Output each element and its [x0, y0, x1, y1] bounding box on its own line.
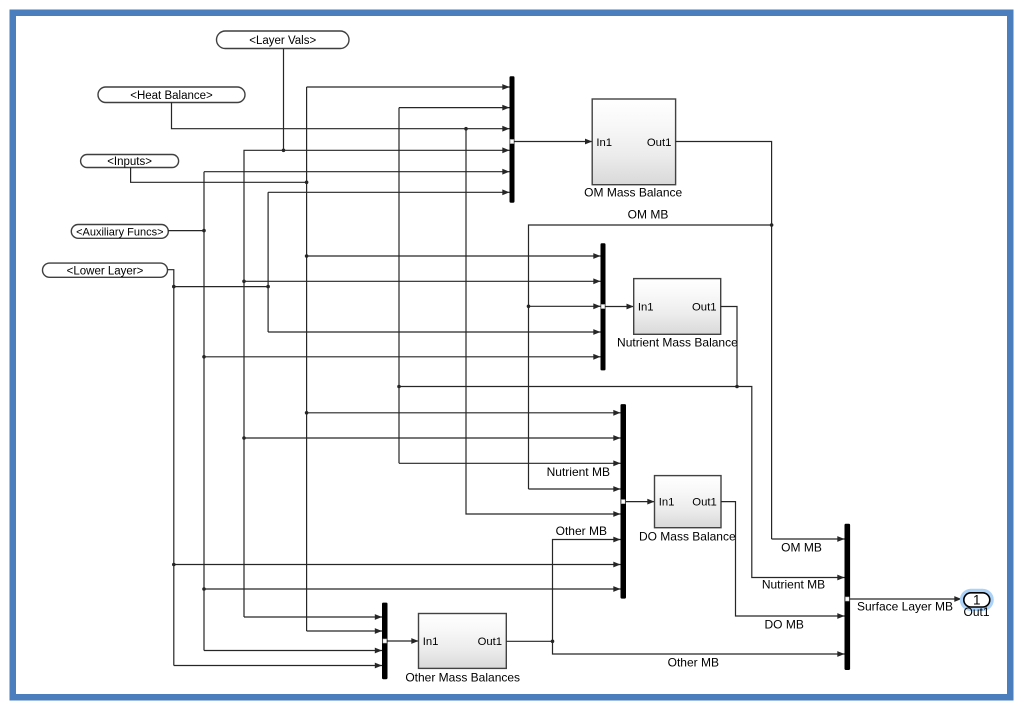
wire Lower Layer lead	[168, 270, 174, 666]
junction Nutrient x399	[397, 385, 401, 389]
wire Other out rightward	[506, 640, 552, 642]
wire HB branch to Mux3 in5	[466, 129, 621, 514]
wire Nutrient to Mux1 in2	[399, 107, 510, 109]
svg-text:<Layer Vals>: <Layer Vals>	[249, 35, 316, 47]
arrowhead Nutrient In1	[627, 304, 634, 310]
wire AF trunk x204	[203, 172, 205, 651]
junction Other x552	[551, 640, 555, 644]
arrowhead Mux3 in1	[613, 410, 620, 416]
svg-text:<Heat Balance>: <Heat Balance>	[130, 90, 213, 102]
mux M2 (Nutrient inputs)	[601, 243, 606, 370]
svg-text:Nutrient MB: Nutrient MB	[762, 578, 825, 592]
wire Layer Vals drop	[283, 49, 285, 151]
arrowhead Mux3 in2	[613, 435, 620, 441]
arrowhead Mux5 in2	[837, 575, 844, 581]
arrowhead Mux1 in4	[502, 147, 509, 153]
arrowhead Mux3 in8	[613, 586, 620, 592]
wire OM out rightward	[676, 142, 772, 540]
wire OM to Mux2 in3	[529, 305, 601, 307]
svg-text:Out1: Out1	[963, 605, 989, 619]
wire Inputs trunk x306	[306, 87, 308, 631]
svg-text:Out1: Out1	[692, 301, 717, 313]
junction LL y564	[172, 563, 176, 567]
svg-text:<Auxiliary Funcs>: <Auxiliary Funcs>	[76, 226, 163, 238]
arrowhead Mux4 in1	[375, 614, 382, 620]
arrowhead Other In1	[411, 638, 418, 644]
svg-text:Nutrient MB: Nutrient MB	[547, 465, 610, 479]
from tag Layer Vals	[217, 31, 350, 49]
wire Mux2 out to Nutrient In1	[606, 306, 634, 308]
subsystem Other Mass Balances	[405, 614, 520, 685]
arrowhead Mux2 in3	[593, 303, 600, 309]
wire AF to Mux1 in5	[204, 171, 510, 173]
from tag Auxiliary Funcs	[71, 225, 168, 239]
svg-text:Out1: Out1	[647, 137, 672, 149]
wire LV to Mux2 in2	[244, 280, 601, 282]
mux M4 (Other inputs)	[382, 603, 388, 680]
wire IN to Mux3 in1	[307, 412, 621, 414]
from tag Lower Layer	[43, 263, 168, 277]
subsystem OM Mass Balance	[584, 99, 682, 199]
junction AF y357	[202, 355, 206, 359]
svg-text:In1: In1	[423, 636, 439, 648]
wire Layer Vals to Mux1 in4	[244, 150, 510, 617]
arrowhead DO In1	[647, 499, 654, 505]
wire LL to Mux1 in6	[268, 191, 509, 193]
svg-text:Out1: Out1	[478, 636, 503, 648]
arrowhead Mux5 in1	[837, 536, 844, 542]
svg-text:In1: In1	[638, 301, 654, 313]
junction HB x466	[464, 127, 468, 131]
mux M1 (OM inputs)	[510, 76, 515, 202]
wire Other to Mux5 in4	[553, 641, 845, 654]
wire Inputs drop and run	[131, 167, 307, 182]
junction IN y256	[305, 254, 309, 258]
wire LL to Mux2 in4	[268, 331, 600, 333]
svg-text:Nutrient Mass Balance: Nutrient Mass Balance	[617, 336, 738, 350]
outport Out1 selection halo	[962, 591, 992, 610]
svg-text:Surface Layer MB: Surface Layer MB	[857, 600, 953, 614]
arrowhead Mux2 in1	[593, 253, 600, 259]
svg-text:Other MB: Other MB	[556, 524, 607, 538]
arrowhead Mux1 in2	[502, 105, 509, 111]
svg-text:<Inputs>: <Inputs>	[107, 156, 152, 168]
arrowhead Mux3 in6	[613, 537, 620, 543]
junction LL y286	[172, 285, 176, 289]
from tag Heat Balance	[98, 87, 245, 103]
junction Nutrient y386	[735, 385, 739, 389]
svg-text:<Lower Layer>: <Lower Layer>	[67, 265, 144, 277]
arrowhead Mux4 in3	[375, 648, 382, 654]
mux M5 (Surface Layer output)	[845, 524, 851, 670]
wire Nutrient to Mux5 in2	[737, 387, 845, 578]
wire Nutrient to Mux3 in3	[399, 462, 621, 464]
wire DO out to Mux5 in3	[721, 502, 845, 616]
arrowhead Mux2 in4	[593, 329, 600, 335]
svg-text:In1: In1	[596, 137, 612, 149]
wire LV to Mux4 in1	[244, 616, 382, 618]
arrowhead Mux4 in2	[375, 628, 382, 634]
subsystem Nutrient Mass Balance	[617, 279, 738, 350]
arrowhead Mux3 in4	[613, 486, 620, 492]
junction IN y413	[305, 411, 309, 415]
wire Nutrient MB leftward y386	[399, 386, 737, 388]
subsystem DO Mass Balance	[639, 476, 736, 544]
junction AF y589	[202, 587, 206, 591]
wire Mux1 out to OM In1	[515, 141, 593, 143]
outport Out1	[964, 593, 990, 608]
svg-text:OM MB: OM MB	[781, 541, 822, 555]
arrowhead Mux4 in4	[375, 663, 382, 669]
junction OM y225	[770, 223, 774, 227]
wire Inputs to Mux1 in1	[307, 86, 510, 88]
from tag Inputs	[81, 155, 179, 169]
wire AF to Mux3 in8	[204, 588, 621, 590]
wire LL to Mux4 in4	[174, 665, 382, 667]
wire LL riser x268	[267, 192, 269, 332]
arrowhead Mux5 in4	[837, 651, 844, 657]
svg-text:OM MB: OM MB	[628, 208, 669, 222]
arrowhead Mux3 in7	[613, 562, 620, 568]
wire Heat Balance drop and run to Mux1 in3	[172, 102, 510, 128]
arrowhead Mux2 in5	[593, 354, 600, 360]
arrowhead Out1 port	[954, 596, 961, 602]
svg-text:OM Mass Balance: OM Mass Balance	[584, 185, 682, 199]
wire LV to Mux3 in2	[244, 437, 621, 439]
wire IN to Mux2 in1	[307, 255, 601, 257]
wire OM to Mux3 in4	[529, 488, 621, 490]
junction Layer Vals at y150	[282, 149, 286, 153]
wire Mux4 out to Other In1	[388, 640, 419, 642]
svg-text:Other Mass Balances: Other Mass Balances	[405, 671, 520, 685]
wire OM to Mux5 in1	[772, 538, 845, 540]
wire Aux Funcs lead	[168, 230, 204, 232]
junction Inputs join x306	[305, 181, 309, 185]
wire Mux5 out to Out1 port	[850, 598, 962, 600]
arrowhead Mux1 in5	[502, 169, 509, 175]
wire LL to Mux3 in7	[174, 564, 621, 566]
wire AF to Mux2 in5	[204, 356, 601, 358]
svg-text:Out1: Out1	[692, 497, 717, 509]
junction LL join x268	[266, 285, 270, 289]
wire Nutrient riser x399	[398, 108, 400, 464]
junction LV x244 y281	[242, 280, 246, 284]
mux M3 (DO inputs)	[621, 404, 627, 598]
svg-text:In1: In1	[659, 497, 675, 509]
wire IN to Mux4 in2	[307, 630, 382, 632]
wire Nutrient out rightward	[721, 307, 737, 387]
arrowhead Mux1 in1	[502, 84, 509, 90]
wire Mux3 out to DO In1	[626, 501, 655, 503]
junction OM x528 y306	[527, 305, 531, 309]
svg-text:DO MB: DO MB	[765, 618, 804, 632]
svg-text:DO Mass Balance: DO Mass Balance	[639, 530, 736, 544]
arrowhead Mux3 in5	[613, 511, 620, 517]
arrowhead Mux5 in3	[837, 613, 844, 619]
wire AF to Mux4 in3	[204, 650, 382, 652]
arrowhead Mux1 in6	[502, 189, 509, 195]
arrowhead Mux2 in2	[593, 278, 600, 284]
svg-text:Other MB: Other MB	[668, 656, 719, 670]
wire OM MB leftward y225	[529, 225, 772, 489]
junction LV x244 y438	[242, 436, 246, 440]
wire Other riser to Mux3 in6	[553, 540, 621, 642]
arrowhead Mux1 in3	[502, 126, 509, 132]
arrowhead Mux3 in3	[613, 460, 620, 466]
arrowhead OM In1	[585, 139, 592, 145]
junction AF join x204	[202, 229, 206, 233]
wire LL branch right y286	[174, 286, 268, 288]
